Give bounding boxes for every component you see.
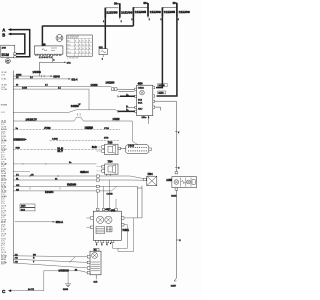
svg-text:8: 8: [82, 44, 83, 46]
svg-text:B: B: [2, 33, 5, 38]
svg-text:11E/36: 11E/36: [158, 85, 165, 87]
svg-text:11E/3: 11E/3: [158, 92, 164, 94]
svg-text:C3DA: C3DA: [138, 86, 144, 89]
svg-text:7HBE: 7HBE: [122, 229, 129, 232]
svg-text:34-TB: 34-TB: [28, 289, 34, 291]
svg-text:3CA: 3CA: [138, 101, 143, 104]
svg-text:8: 8: [79, 44, 80, 46]
svg-text:7/B4: 7/B4: [147, 173, 153, 176]
svg-text:8: 8: [82, 41, 83, 43]
svg-text:11E/35: 11E/35: [106, 11, 118, 15]
svg-text:X c: X c: [67, 48, 70, 50]
svg-text:8: 8: [86, 52, 87, 54]
svg-text:8: 8: [86, 48, 87, 50]
svg-text:JT33: JT33: [104, 128, 110, 130]
svg-text:8: 8: [75, 52, 76, 54]
svg-text:8: 8: [75, 48, 76, 50]
svg-text:8: 8: [82, 52, 83, 54]
svg-text:30+: 30+: [173, 1, 178, 5]
svg-text:1/31s: 1/31s: [142, 117, 147, 119]
svg-text:C4/1B: C4/1B: [107, 194, 114, 196]
svg-text:3/22-A: 3/22-A: [56, 221, 64, 224]
svg-text:GR: GR: [16, 185, 20, 187]
svg-text:C: C: [6, 59, 9, 64]
svg-text:1 2 3 4 5 6 7 8: 1 2 3 4 5 6 7 8: [67, 58, 78, 60]
svg-text:RB/BM: RB/BM: [1, 104, 8, 106]
svg-text:8: 8: [86, 41, 87, 43]
svg-text:8: 8: [79, 52, 80, 54]
svg-text:4/B2: 4/B2: [105, 209, 110, 211]
svg-text:1 2 3 4 5 6 7 8: 1 2 3 4 5 6 7 8: [39, 57, 53, 59]
svg-text:14 GN: 14 GN: [1, 89, 7, 91]
svg-text:AI1J: AI1J: [138, 107, 142, 110]
svg-text:14/2RG: 14/2RG: [85, 126, 94, 129]
svg-text:7/34: 7/34: [108, 161, 113, 164]
svg-text:ECM: ECM: [2, 53, 10, 57]
svg-text:31 d: 31 d: [67, 52, 70, 54]
svg-text:JY/33: JY/33: [44, 127, 51, 130]
svg-text:8: 8: [86, 44, 87, 46]
svg-text:14/2M: 14/2M: [91, 84, 98, 87]
svg-text:8: 8: [75, 44, 76, 46]
svg-text:8: 8: [82, 48, 83, 50]
svg-text:11E/36: 11E/36: [150, 10, 162, 14]
svg-text:11E/36: 11E/36: [121, 11, 133, 15]
svg-text:31/2B: 31/2B: [171, 196, 177, 198]
svg-text:15 b: 15 b: [67, 44, 70, 46]
svg-text:2T/3: 2T/3: [104, 137, 109, 139]
svg-text:30 15 X 50 31: 30 15 X 50 31: [67, 37, 78, 39]
svg-text:B-: B-: [126, 106, 128, 108]
svg-text:30+: 30+: [114, 1, 119, 5]
svg-text:31/B7: 31/B7: [171, 286, 177, 288]
svg-text:31/5B: 31/5B: [63, 289, 69, 291]
svg-text:S/1-4: S/1-4: [71, 78, 78, 81]
svg-text:K2GB4: K2GB4: [45, 191, 54, 194]
svg-text:8: 8: [75, 41, 76, 43]
svg-text:S2/43: S2/43: [53, 75, 60, 78]
svg-text:AR: AR: [31, 173, 34, 176]
svg-text:8: 8: [79, 48, 80, 50]
svg-text:d: d: [178, 132, 179, 134]
svg-text:30 a: 30 a: [67, 41, 70, 43]
svg-text:2E/3B: 2E/3B: [16, 74, 22, 76]
svg-text:14/2M: 14/2M: [113, 118, 120, 121]
svg-text:31/2: 31/2: [92, 146, 97, 149]
svg-text:A4M3: A4M3: [52, 138, 58, 141]
svg-text:4MBA4: 4MBA4: [80, 171, 89, 174]
svg-text:14DB: 14DB: [22, 88, 28, 90]
svg-text:A/5B: A/5B: [166, 179, 172, 182]
svg-text:14 Y: 14 Y: [1, 112, 6, 114]
svg-text:0.75: 0.75: [1, 264, 5, 266]
svg-text:K5MB/3G=: K5MB/3G=: [14, 139, 27, 142]
svg-text:11E/35: 11E/35: [135, 10, 147, 14]
svg-text:W: W: [79, 104, 81, 106]
svg-text:14DBKJV: 14DBKJV: [26, 119, 38, 122]
svg-text:KMBM4: KMBM4: [67, 184, 77, 187]
svg-text:14/2MG: 14/2MG: [106, 81, 115, 84]
svg-text:8: 8: [89, 52, 90, 54]
svg-text:14UBGN: 14UBGN: [59, 269, 69, 272]
svg-text:14DBG: 14DBG: [33, 71, 41, 74]
svg-text:8: 8: [79, 41, 80, 43]
svg-text:11E/36: 11E/36: [179, 10, 191, 14]
svg-text:30+: 30+: [143, 1, 148, 5]
svg-text:8: 8: [89, 48, 90, 50]
svg-text:8: 8: [89, 44, 90, 46]
svg-text:BL/Y: BL/Y: [57, 150, 63, 153]
svg-text:14 BL: 14 BL: [1, 79, 7, 81]
svg-text:11E/35: 11E/35: [164, 10, 176, 14]
svg-text:8: 8: [89, 41, 90, 43]
